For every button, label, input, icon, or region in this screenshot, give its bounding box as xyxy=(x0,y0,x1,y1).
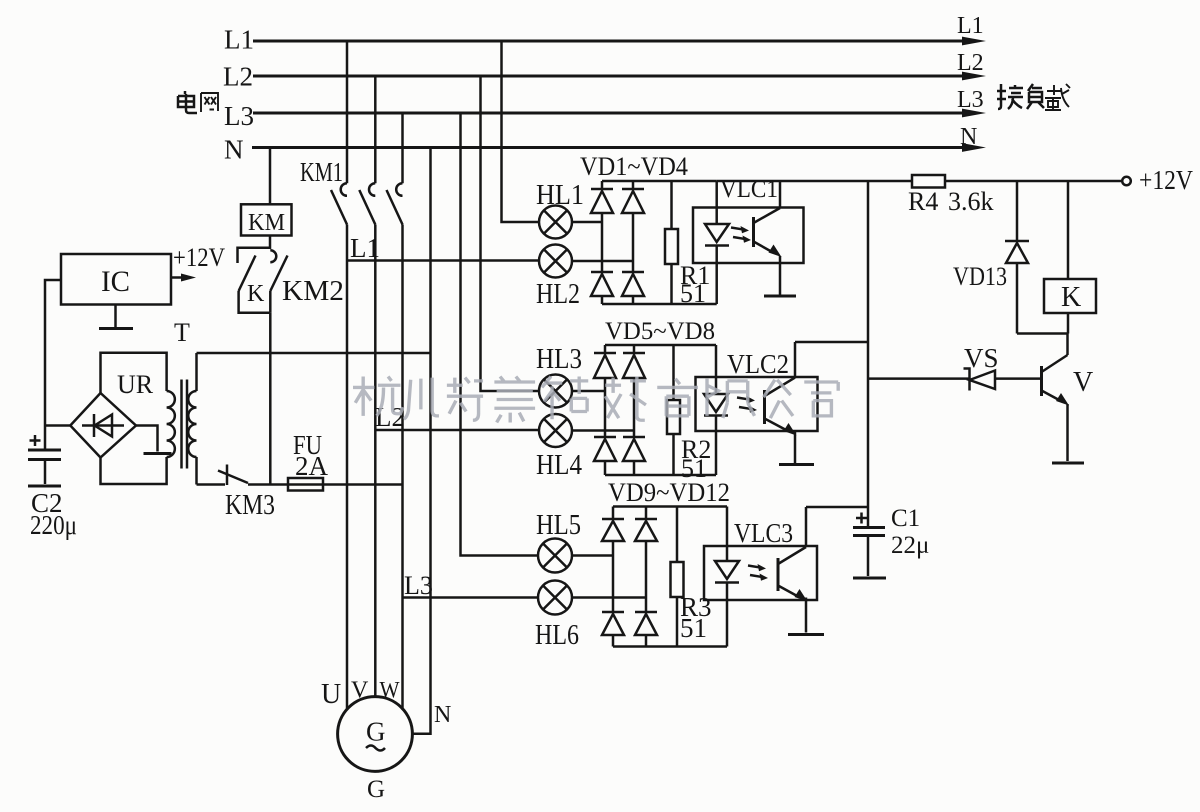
diode VD3 xyxy=(591,272,613,304)
wire bridge3 column 1 mid xyxy=(612,541,615,612)
wire bridge1 column 1 mid xyxy=(601,213,604,272)
wire UR top loop to transformer secondary xyxy=(101,353,167,393)
svg-text:L1: L1 xyxy=(350,233,380,263)
ground at C2 xyxy=(28,485,61,488)
svg-text:T: T xyxy=(174,318,190,347)
label 接负载 (to load) xyxy=(997,84,1070,110)
svg-text:HL5: HL5 xyxy=(536,509,581,541)
wire IC output arrow xyxy=(171,274,196,282)
wire L2 bus xyxy=(253,72,986,81)
wire node L2 to HL4 xyxy=(375,429,538,432)
transistor V xyxy=(1042,334,1070,462)
wire node L3 to HL6 xyxy=(403,596,539,599)
wire collector bus down to C1 xyxy=(867,181,870,507)
svg-text:+12V: +12V xyxy=(1139,165,1193,195)
svg-text:UR: UR xyxy=(117,370,154,399)
relay coil K box xyxy=(1044,181,1096,334)
transformer T secondary winding xyxy=(167,391,175,457)
ground at VLC1 emitter xyxy=(764,295,796,298)
diode bridge VD1-VD4 rails xyxy=(602,181,717,304)
wire bridge2 column 1 mid xyxy=(604,378,607,437)
svg-text:HL2: HL2 xyxy=(536,278,580,310)
svg-text:VS: VS xyxy=(964,343,999,373)
svg-text:VD9~VD12: VD9~VD12 xyxy=(608,478,730,507)
svg-text:220μ: 220μ xyxy=(30,510,77,540)
optocoupler VLC2 xyxy=(696,342,818,475)
diode bridge VD9-VD12 rails xyxy=(613,507,727,647)
wire C2 node to UR left vertex xyxy=(45,424,70,427)
ground at V emitter xyxy=(1052,462,1084,465)
diode VD5 xyxy=(594,345,616,378)
svg-text:G: G xyxy=(367,776,385,803)
svg-text:L2: L2 xyxy=(223,62,253,92)
contact K (relay contact) xyxy=(239,256,270,313)
wire collector bus to VS xyxy=(868,377,970,380)
wire N bus down to transformer and generator xyxy=(412,148,430,734)
generator G xyxy=(338,697,413,772)
wire node L1 to HL2 xyxy=(347,259,539,262)
svg-text:HL1: HL1 xyxy=(536,179,584,211)
svg-text:K: K xyxy=(247,281,265,307)
svg-text:R4: R4 xyxy=(908,187,938,216)
fuse FU xyxy=(288,478,323,491)
svg-text:L3: L3 xyxy=(224,101,254,131)
diode VD1 xyxy=(591,181,613,213)
wire IC left to rectifier DC+ xyxy=(45,280,61,426)
ground at UR xyxy=(144,452,172,455)
IC U1 box xyxy=(61,254,171,305)
capacitor C2 xyxy=(28,426,61,485)
svg-text:K: K xyxy=(1061,282,1081,313)
svg-text:V: V xyxy=(351,678,369,704)
svg-text:+12V: +12V xyxy=(173,243,225,272)
svg-text:KM: KM xyxy=(248,210,285,236)
contact KM1 pole 3 xyxy=(387,113,403,710)
svg-text:HL3: HL3 xyxy=(536,343,582,375)
wire VLC3 collector to +12V rail xyxy=(806,506,868,509)
svg-text:VLC3: VLC3 xyxy=(734,518,793,548)
wire HL1 to bridge1 xyxy=(572,221,602,224)
ground at IC xyxy=(99,305,133,329)
wire L1 bus xyxy=(253,37,986,46)
svg-text:N: N xyxy=(434,702,451,728)
svg-text:VLC2: VLC2 xyxy=(727,349,789,379)
svg-text:HL4: HL4 xyxy=(536,449,582,481)
ground at VLC3 emitter xyxy=(788,633,824,636)
watermark 杭州将睿科技有限公司 xyxy=(353,376,838,422)
wire HL6 to bridge3 xyxy=(572,596,646,599)
svg-text:C1: C1 xyxy=(891,505,920,532)
wire L2 bus tap down to HL3 xyxy=(481,76,539,391)
svg-text:VD13: VD13 xyxy=(953,262,1007,291)
resistor R2 xyxy=(667,345,680,475)
svg-text:L1: L1 xyxy=(957,13,984,39)
wire bridge2 column 2 mid xyxy=(633,378,636,437)
capacitor C1 xyxy=(853,507,885,576)
svg-text:N: N xyxy=(960,124,977,150)
svg-text:G: G xyxy=(366,717,386,747)
wire collector rail to R4 xyxy=(717,180,912,183)
wire KM coil to contacts xyxy=(238,236,271,264)
wire L3 bus xyxy=(253,109,986,118)
wire N bus xyxy=(252,143,986,152)
bridge rectifier UR xyxy=(70,393,136,458)
label 电网 (power grid) xyxy=(178,91,218,113)
wire transformer primary top to N xyxy=(197,352,431,355)
svg-text:51: 51 xyxy=(680,613,707,643)
contact KM2 (aux contact) xyxy=(270,250,287,312)
diode VD9 xyxy=(602,507,624,542)
transformer T primary winding xyxy=(188,353,196,485)
lamp HL5 xyxy=(538,539,572,573)
resistor R3 xyxy=(671,507,684,647)
diode VD4 xyxy=(622,272,644,304)
svg-text:22μ: 22μ xyxy=(891,532,929,559)
wire UR bottom loop to transformer secondary xyxy=(101,457,167,484)
svg-text:3.6k: 3.6k xyxy=(948,187,994,216)
lamp HL3 xyxy=(539,375,572,408)
svg-text:L3: L3 xyxy=(404,571,433,600)
wire HL4 to bridge2 xyxy=(572,429,634,432)
ground at VLC2 emitter xyxy=(779,463,814,466)
wire HL3 to bridge2 xyxy=(572,390,605,393)
wire VD13 anode to relay bottom xyxy=(1017,332,1068,335)
ground at C1 xyxy=(853,577,886,580)
wire N bus down to KM coil xyxy=(269,148,272,205)
wire R4 to +12V terminal xyxy=(945,180,1122,183)
wire UR right vertex to ground xyxy=(136,426,158,452)
lamp HL6 xyxy=(538,581,572,615)
svg-text:51: 51 xyxy=(680,279,706,308)
svg-text:V: V xyxy=(1073,367,1093,398)
diode VD6 xyxy=(623,345,645,378)
resistor R1 xyxy=(665,181,678,304)
wire transformer primary bottom to KM3 xyxy=(197,483,226,486)
diode bridge VD5-VD8 rails xyxy=(605,345,716,475)
svg-text:L2: L2 xyxy=(375,402,405,432)
svg-text:W: W xyxy=(380,678,400,703)
diode VD12 xyxy=(635,612,657,647)
terminal +12V xyxy=(1122,177,1131,186)
wire bridge3 column 2 mid xyxy=(645,541,648,612)
diode VD11 xyxy=(602,612,624,647)
svg-text:VD1~VD4: VD1~VD4 xyxy=(580,152,688,181)
diode VD10 xyxy=(635,507,657,542)
svg-text:L3: L3 xyxy=(957,87,984,113)
lamp HL4 xyxy=(539,414,572,447)
svg-text:L2: L2 xyxy=(957,50,984,76)
contact KM1 pole 2 xyxy=(359,76,375,697)
svg-text:2A: 2A xyxy=(295,451,329,481)
wire L3 bus tap down to HL5 xyxy=(461,113,539,556)
wire contacts down to fuse line xyxy=(269,313,272,485)
lamp HL1 xyxy=(539,206,572,239)
diode VD8 xyxy=(623,437,645,475)
svg-text:KM1: KM1 xyxy=(300,157,343,187)
wire HL2 to bridge1 xyxy=(572,260,633,263)
diode VD13 xyxy=(1005,181,1029,334)
wire HL5 to bridge3 xyxy=(572,554,613,557)
contactor KM coil box KM xyxy=(241,204,292,236)
wire fuse to phase W line xyxy=(323,483,403,486)
svg-text:KM2: KM2 xyxy=(282,276,344,307)
zener diode VS xyxy=(964,369,1042,391)
wire L1 bus tap down to HL1 xyxy=(502,41,540,222)
diode VD2 xyxy=(622,181,644,213)
wire VLC2 collector to +12V rail xyxy=(795,341,868,344)
svg-text:U: U xyxy=(321,679,341,710)
svg-text:HL6: HL6 xyxy=(535,619,579,651)
svg-text:L1: L1 xyxy=(224,25,254,55)
contact KM1 pole 1 xyxy=(331,41,347,709)
contact KM3 xyxy=(218,465,288,486)
resistor R4 xyxy=(912,175,945,188)
wire bridge1 column 2 mid xyxy=(632,213,635,272)
svg-text:VD5~VD8: VD5~VD8 xyxy=(605,318,715,345)
lamp HL2 xyxy=(539,245,572,278)
optocoupler VLC3 xyxy=(704,507,817,647)
svg-text:N: N xyxy=(224,135,244,165)
optocoupler VLC1 xyxy=(693,181,804,304)
transformer T core xyxy=(182,380,188,469)
svg-text:IC: IC xyxy=(101,265,130,298)
svg-text:KM3: KM3 xyxy=(225,490,275,521)
diode VD7 xyxy=(594,437,616,475)
